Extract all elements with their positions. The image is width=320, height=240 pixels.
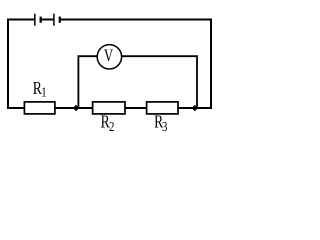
svg-text:3: 3 (162, 119, 167, 134)
wire: bottom rail (7, 107, 212, 109)
node B junction dot (192, 105, 198, 111)
resistor R3 (147, 102, 178, 114)
battery B1 cell1 short thick plate (-) (40, 17, 42, 23)
svg-text:2: 2 (109, 119, 114, 134)
resistor R1 (24, 102, 55, 114)
svg-text:V: V (104, 47, 113, 67)
wire: left rail (7, 19, 9, 110)
battery B1 cell2 long plate (+) (53, 14, 55, 26)
wire: right rail (210, 19, 212, 110)
svg-text:1: 1 (41, 84, 46, 99)
wire: top left segment from left rail to battery (7, 19, 34, 21)
wire: voltmeter left lead (78, 56, 97, 107)
wire: stub between battery cells (42, 19, 54, 21)
battery B1 cell1 long plate (+) (34, 14, 36, 26)
resistor R2 (93, 102, 125, 114)
node A junction dot (73, 105, 79, 111)
battery B1 cell2 short thick plate (-) (59, 17, 61, 23)
wire: voltmeter right lead (121, 56, 197, 107)
voltmeter U1 body (97, 45, 121, 69)
wire: top right segment from battery to right rail (61, 19, 212, 21)
